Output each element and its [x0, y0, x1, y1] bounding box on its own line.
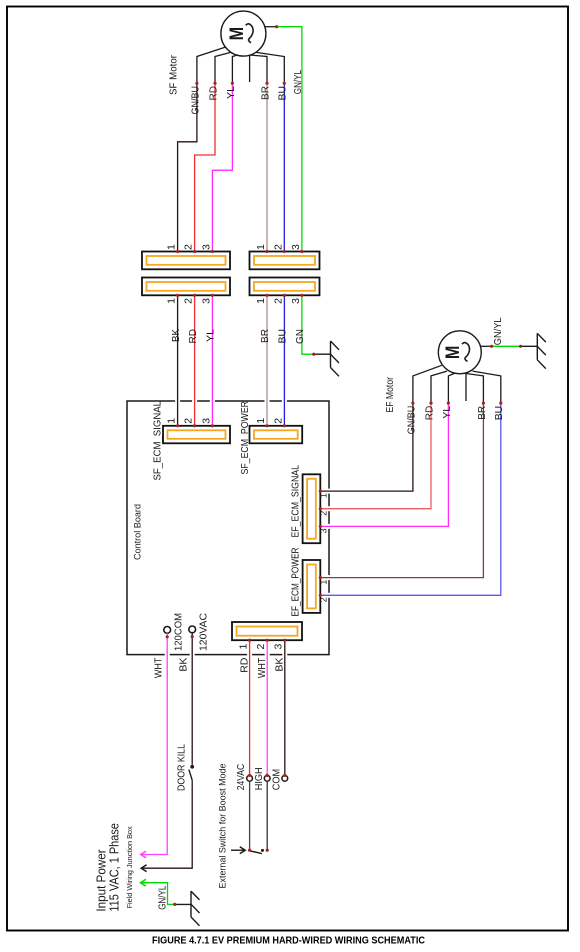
- svg-text:BU: BU: [277, 86, 289, 101]
- svg-text:BU: BU: [277, 329, 289, 344]
- svg-text:SF_ECM_SIGNAL: SF_ECM_SIGNAL: [153, 401, 164, 481]
- svg-text:WHT: WHT: [153, 657, 165, 678]
- svg-text:BR: BR: [259, 86, 271, 100]
- svg-text:1: 1: [318, 580, 328, 585]
- svg-text:GN/YL: GN/YL: [292, 70, 304, 94]
- svg-text:1: 1: [166, 244, 178, 250]
- svg-text:YL: YL: [205, 329, 217, 342]
- svg-text:RD: RD: [423, 405, 435, 420]
- svg-text:2: 2: [318, 511, 328, 516]
- svg-text:1: 1: [166, 418, 178, 424]
- svg-text:External Switch for Boost Mode: External Switch for Boost Mode: [218, 764, 229, 889]
- svg-text:HIGH: HIGH: [253, 767, 265, 790]
- svg-text:1: 1: [255, 418, 267, 424]
- svg-text:2: 2: [183, 244, 195, 250]
- svg-text:2: 2: [318, 597, 328, 602]
- svg-text:EF Motor: EF Motor: [384, 377, 396, 413]
- svg-text:BR: BR: [259, 329, 271, 343]
- svg-text:2: 2: [255, 644, 267, 650]
- svg-text:Control Board: Control Board: [132, 504, 143, 560]
- svg-text:EF_ECM_SIGNAL: EF_ECM_SIGNAL: [291, 465, 302, 538]
- svg-text:M: M: [227, 27, 248, 40]
- svg-text:YL: YL: [225, 86, 237, 99]
- svg-text:2: 2: [183, 418, 195, 424]
- svg-text:M: M: [443, 346, 464, 360]
- svg-text:2: 2: [272, 298, 284, 304]
- svg-text:BK: BK: [274, 658, 286, 672]
- svg-text:SF Motor: SF Motor: [168, 55, 180, 95]
- svg-text:RD: RD: [207, 86, 219, 101]
- svg-text:115 VAC, 1 Phase: 115 VAC, 1 Phase: [108, 823, 122, 912]
- svg-text:1: 1: [318, 493, 328, 498]
- svg-text:GN/BU: GN/BU: [189, 86, 201, 115]
- svg-text:24VAC: 24VAC: [235, 763, 247, 790]
- svg-text:GN/YL: GN/YL: [157, 886, 169, 910]
- svg-text:120COM: 120COM: [172, 613, 184, 651]
- svg-text:1: 1: [166, 298, 178, 304]
- svg-text:GN: GN: [294, 329, 306, 344]
- svg-text:WHT: WHT: [256, 657, 268, 678]
- svg-text:EF_ECM_POWER: EF_ECM_POWER: [291, 548, 302, 617]
- svg-text:RD: RD: [187, 329, 199, 344]
- svg-text:3: 3: [200, 244, 212, 250]
- svg-text:BK: BK: [170, 329, 182, 342]
- svg-text:YL: YL: [441, 406, 453, 419]
- svg-text:Input Power: Input Power: [95, 849, 109, 911]
- svg-text:1: 1: [255, 244, 267, 250]
- svg-text:GN/YL: GN/YL: [492, 317, 504, 345]
- svg-text:3: 3: [273, 644, 285, 650]
- svg-text:2: 2: [272, 418, 284, 424]
- svg-text:Field Wiring Junction Box: Field Wiring Junction Box: [125, 826, 134, 908]
- svg-text:1: 1: [237, 644, 249, 650]
- svg-text:3: 3: [290, 298, 302, 304]
- svg-text:2: 2: [272, 244, 284, 250]
- svg-text:DOOR KILL: DOOR KILL: [175, 744, 187, 791]
- svg-text:2: 2: [183, 298, 195, 304]
- svg-text:BK: BK: [178, 658, 190, 672]
- svg-text:1: 1: [255, 298, 267, 304]
- svg-text:COM: COM: [271, 769, 283, 791]
- svg-text:BR: BR: [476, 405, 488, 419]
- svg-text:3: 3: [290, 244, 302, 250]
- svg-text:RD: RD: [238, 657, 250, 673]
- svg-text:BU: BU: [493, 406, 505, 421]
- svg-text:GN/BU: GN/BU: [405, 406, 417, 435]
- svg-text:120VAC: 120VAC: [197, 613, 209, 651]
- svg-text:FIGURE 4.7.1 EV PREMIUM HARD-W: FIGURE 4.7.1 EV PREMIUM HARD-WIRED WIRIN…: [152, 936, 425, 947]
- svg-text:3: 3: [318, 528, 328, 533]
- svg-text:3: 3: [200, 298, 212, 304]
- svg-text:3: 3: [200, 418, 212, 424]
- svg-text:SF_ECM_POWER: SF_ECM_POWER: [240, 401, 251, 475]
